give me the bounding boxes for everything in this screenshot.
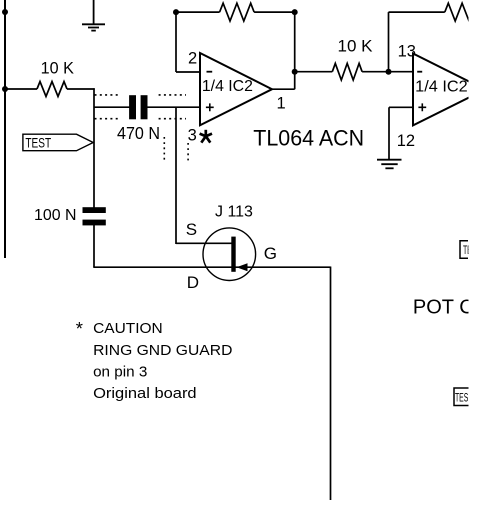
capacitor C2 100 N plate 2 <box>83 220 106 226</box>
wire 470N branch left <box>94 106 130 108</box>
wire op-amp U1 pin2 input <box>176 71 200 73</box>
wire 470N branch right to op-amp <box>148 106 201 108</box>
svg-text:D: D <box>187 273 199 292</box>
ground GND2 bar 3 <box>385 167 393 169</box>
svg-text:POT C: POT C <box>413 297 474 319</box>
svg-text:470 N: 470 N <box>117 123 160 143</box>
svg-text:J 113: J 113 <box>215 204 253 221</box>
wire output to right op-amp segment a <box>295 71 333 73</box>
wire vertical from R1 down to C2 top <box>93 88 95 207</box>
svg-text:1: 1 <box>277 95 286 113</box>
ground GND2 bar 1 <box>377 159 402 161</box>
capacitor C1 470 N plate 2 <box>141 95 148 119</box>
guard ring dotted vertical 1 <box>163 137 165 163</box>
wire vertical up from junction <box>388 12 390 72</box>
guard ring dotted line upper right segment <box>159 94 186 96</box>
svg-text:TEST: TEST <box>455 391 473 405</box>
capacitor C1 470 N plate 1 <box>129 95 136 119</box>
wire 10K left segment a <box>5 88 37 90</box>
guard ring dotted vertical 2 <box>187 143 189 163</box>
guard ring dotted line upper left segment <box>95 94 122 96</box>
resistor R1 10 K left <box>37 82 67 97</box>
ground GND1 bar 3 <box>91 30 96 32</box>
wire output to right op-amp segment b <box>362 71 413 73</box>
node dot left rail at 10K wire <box>2 86 8 92</box>
ground GND2 bar 2 <box>381 163 397 165</box>
op-amp U1 triangle <box>200 53 272 125</box>
node dot feedback right corner <box>292 9 298 15</box>
node dot on left rail top <box>2 9 8 15</box>
svg-text:10 K: 10 K <box>338 37 374 56</box>
star mark on pin 3 <box>200 130 212 143</box>
wire top right horizontal <box>389 11 445 13</box>
TEST flag left <box>23 134 93 151</box>
svg-text:S: S <box>186 220 197 239</box>
wire T vertical from 470N node down to JFET source <box>175 107 177 244</box>
node dot feedback left corner <box>173 9 179 15</box>
resistor R4 top right (cut at edge) <box>445 3 480 21</box>
node dot output junction <box>292 69 298 75</box>
resistor R2 feedback <box>220 3 255 21</box>
wire 10K left segment b <box>67 88 95 90</box>
svg-text:on pin 3: on pin 3 <box>93 364 147 380</box>
ground GND1 bar 2 <box>88 27 99 29</box>
transistor Q1 channel bar <box>231 237 235 272</box>
svg-text:10 K: 10 K <box>41 59 75 78</box>
wire drain line along bottom <box>93 266 330 268</box>
svg-text:2: 2 <box>188 50 197 68</box>
ground GND1 top left vertical <box>93 0 95 24</box>
wire feedback left vertical <box>175 12 177 72</box>
wire down to GND2 <box>388 107 390 159</box>
transistor Q1 gate arrow <box>237 263 248 271</box>
TEST box right upper (cut at edge) <box>460 241 468 259</box>
guard ring dotted line lower right segment <box>159 118 186 120</box>
op-amp U1 plus sign <box>206 103 214 111</box>
wire U2 plus input <box>389 106 413 108</box>
op-amp U1 minus sign <box>207 71 213 73</box>
op-amp U2 triangle (cut at edge) <box>413 54 485 126</box>
svg-text:100 N: 100 N <box>34 207 77 224</box>
svg-text:*: * <box>76 318 83 339</box>
TEST box right lower (cut at edge) <box>454 388 470 406</box>
node dot middle junction <box>386 69 392 75</box>
wire feedback right vertical <box>294 12 296 89</box>
svg-text:13: 13 <box>398 43 416 61</box>
ground GND1 bar 1 <box>82 23 105 25</box>
svg-text:TEST: TEST <box>25 134 51 150</box>
op-amp U2 plus sign <box>418 103 426 111</box>
capacitor C2 100 N plate 1 <box>83 207 106 213</box>
svg-text:1/4 IC2: 1/4 IC2 <box>202 78 253 95</box>
svg-text:CAUTION: CAUTION <box>93 321 163 337</box>
wire feedback top segment a <box>176 11 220 13</box>
svg-text:TL064 ACN: TL064 ACN <box>253 125 364 150</box>
wire feedback top segment b <box>254 11 295 13</box>
op-amp U2 minus sign <box>417 71 422 73</box>
resistor R3 10 K middle <box>332 63 362 80</box>
guard ring dotted line lower left segment <box>95 118 122 120</box>
transistor Q1 J113 circle <box>203 228 256 281</box>
svg-text:12: 12 <box>397 132 415 150</box>
svg-text:3: 3 <box>188 127 197 145</box>
wire from C2 bottom down to drain corner <box>93 225 95 267</box>
svg-text:G: G <box>264 244 277 263</box>
wire left vertical rail <box>4 0 6 258</box>
wire U1 output <box>272 88 295 90</box>
svg-text:RING GND GUARD: RING GND GUARD <box>93 343 232 359</box>
wire gate vertical down <box>330 267 332 501</box>
svg-text:Original board: Original board <box>93 386 197 402</box>
wire JFET source horizontal <box>176 242 232 244</box>
svg-text:1/4 IC2: 1/4 IC2 <box>415 79 468 96</box>
svg-text:TEST: TEST <box>463 243 481 257</box>
